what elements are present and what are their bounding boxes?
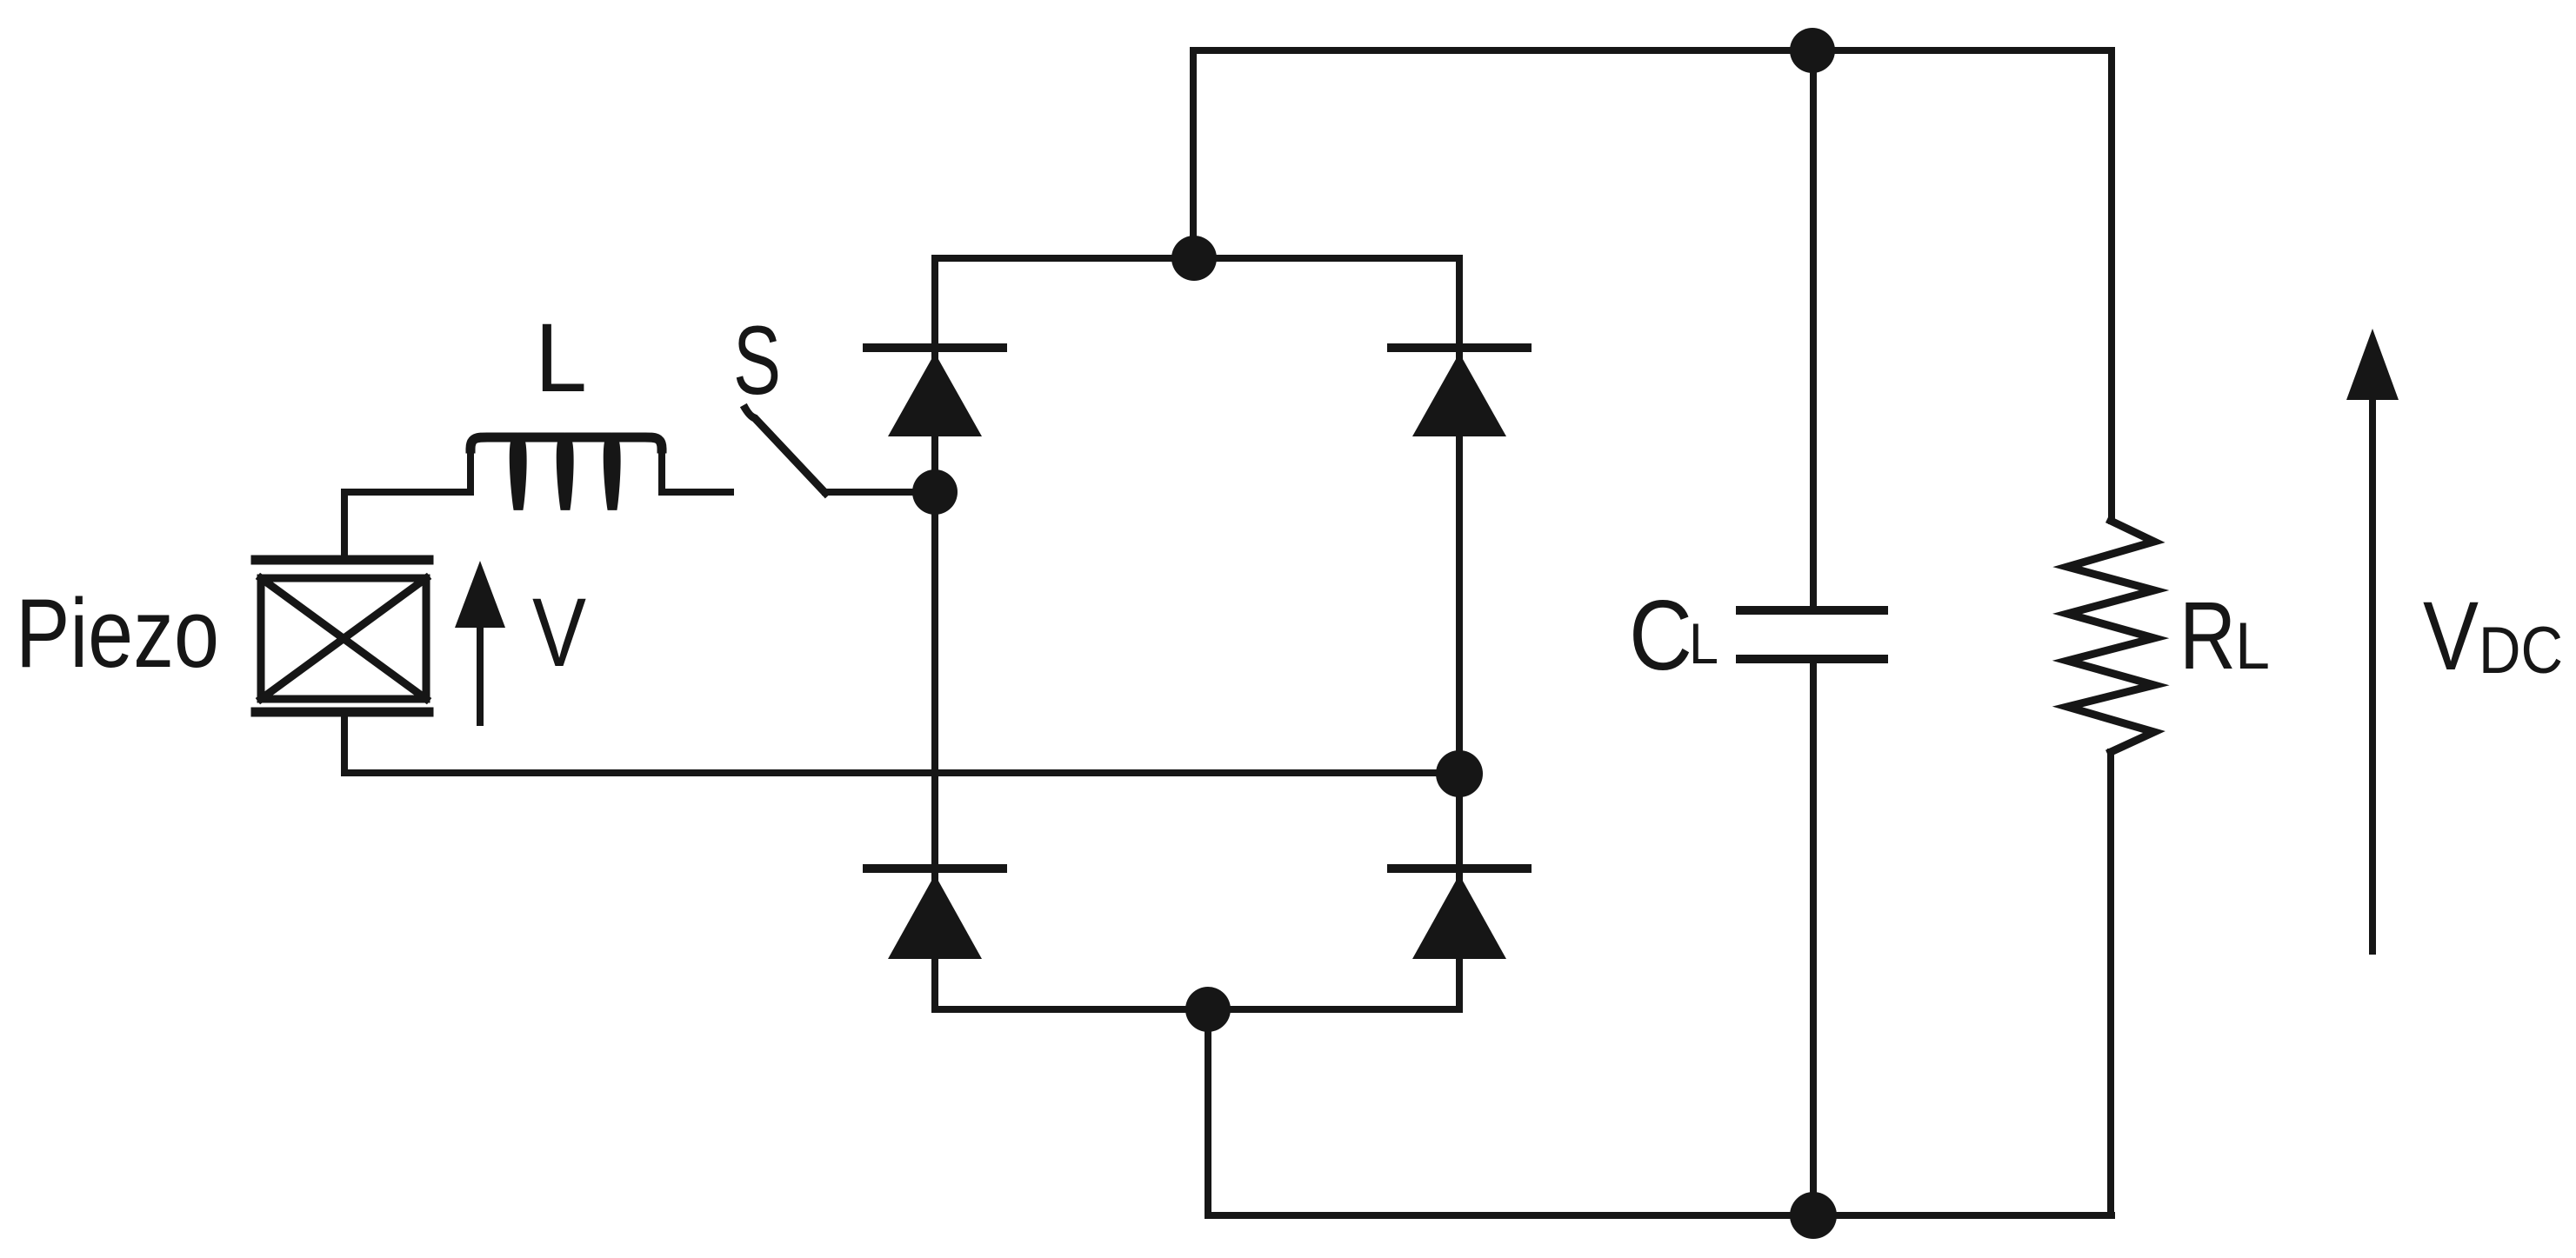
svg-text:C: C <box>1629 581 1692 691</box>
bridge top wire <box>935 255 1459 262</box>
svg-text:S: S <box>733 306 781 415</box>
bridge right vertical wire <box>1456 258 1463 1009</box>
inductor L <box>470 437 662 509</box>
svg-text:V: V <box>2423 582 2479 690</box>
label VDC <box>2423 582 2563 690</box>
wire top rail <box>1193 50 2112 258</box>
diode D3 bottom-left <box>867 869 1003 959</box>
node F bottom rail / capacitor <box>1790 1192 1837 1239</box>
label Piezo <box>16 579 219 688</box>
capacitor CL <box>1740 50 1884 1215</box>
svg-text:L: L <box>1689 611 1718 676</box>
node E top rail / capacitor <box>1790 28 1835 73</box>
arrow VDC <box>2346 329 2399 951</box>
wire bridge bottom node to bottom rail <box>1208 1009 2112 1215</box>
node C bridge right (piezo return) <box>1436 750 1483 797</box>
svg-text:L: L <box>535 303 587 412</box>
svg-text:L: L <box>2235 609 2270 683</box>
label L <box>535 303 587 412</box>
arrow V at piezo <box>455 561 505 722</box>
wire inductor to switch <box>662 489 731 496</box>
svg-text:R: R <box>2179 582 2236 689</box>
piezo transducer element <box>256 560 429 712</box>
label V <box>532 578 586 687</box>
diode D4 bottom-right <box>1391 869 1527 959</box>
label CL <box>1629 581 1718 691</box>
resistor RL <box>2067 50 2154 1215</box>
node B bridge left (switch) <box>912 469 958 515</box>
switch S <box>745 409 825 493</box>
label S <box>733 306 781 415</box>
svg-text:DC: DC <box>2479 614 2563 688</box>
wire piezo top to inductor <box>344 492 470 560</box>
label RL <box>2179 582 2270 689</box>
node A bridge top <box>1171 236 1217 281</box>
diode D2 top-right <box>1391 348 1527 436</box>
wire switch to bridge left node <box>825 489 935 496</box>
bridge bottom wire <box>935 1006 1459 1013</box>
svg-text:V: V <box>532 578 586 687</box>
node D bridge bottom <box>1185 987 1231 1032</box>
diode D1 top-left <box>867 348 1003 436</box>
svg-text:Piezo: Piezo <box>16 579 219 688</box>
wire piezo bottom to mid node <box>344 712 1459 773</box>
bridge left vertical wire <box>931 258 938 1009</box>
